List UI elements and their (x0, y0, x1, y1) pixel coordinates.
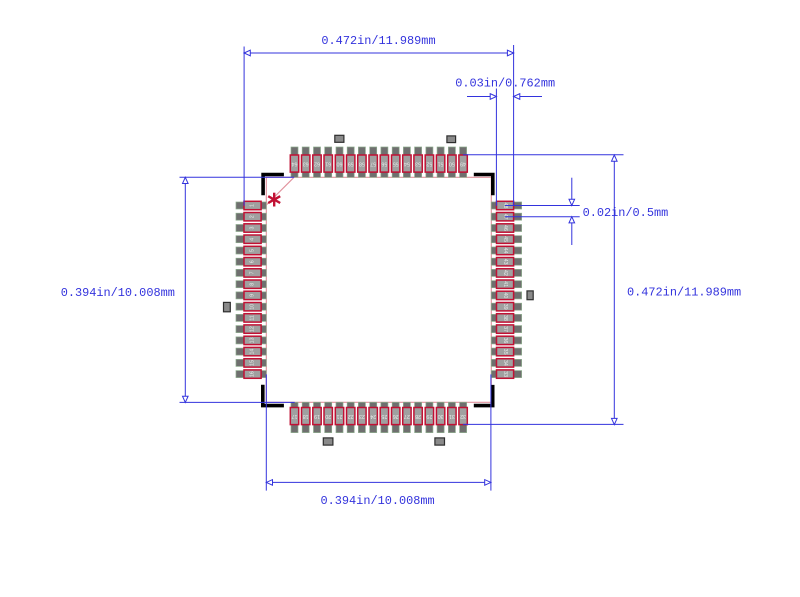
pad 18 (pin 18, bottom side) (302, 402, 310, 432)
pin-1 marker asterisk (268, 193, 280, 207)
svg-text:0.394in/10.008mm: 0.394in/10.008mm (61, 286, 175, 300)
pad 35 (pin 35, right side) (491, 347, 521, 355)
pad 57 (pin 57, top side) (369, 147, 377, 177)
svg-text:52: 52 (426, 161, 432, 167)
pad 22 (pin 22, bottom side) (347, 402, 355, 432)
pad 31 (pin 31, bottom side) (448, 402, 456, 432)
svg-text:36: 36 (502, 337, 508, 343)
pad 43 (pin 43, right side) (491, 258, 521, 266)
pad 33 (pin 33, right side) (491, 370, 521, 378)
pad 53 (pin 53, top side) (414, 147, 422, 177)
pad 16 (pin 16, left side) (236, 370, 266, 378)
pad 49 (pin 49, top side) (459, 147, 467, 177)
svg-text:40: 40 (502, 292, 508, 298)
svg-text:41: 41 (502, 281, 508, 287)
pad 36 (pin 36, right side) (491, 336, 521, 344)
pad 55 (pin 55, top side) (392, 147, 400, 177)
pad 42 (pin 42, right side) (491, 269, 521, 277)
svg-text:42: 42 (502, 270, 508, 276)
pad 1 (pin 1, left side) (236, 201, 266, 209)
svg-text:60: 60 (337, 161, 343, 167)
pad 6 (pin 6, left side) (236, 258, 266, 266)
pad 13 (pin 13, left side) (236, 336, 266, 344)
svg-text:0.472in/11.989mm: 0.472in/11.989mm (627, 286, 741, 300)
dimension 0.02in/0.5mm (pad pitch) (505, 178, 668, 245)
svg-text:46: 46 (502, 225, 508, 231)
pad 56 (pin 56, top side) (380, 147, 388, 177)
pad 48 (pin 48, right side) (491, 201, 521, 209)
pin-1 chamfer line (266, 177, 294, 205)
svg-text:20: 20 (325, 413, 331, 419)
pad 12 (pin 12, left side) (236, 325, 266, 333)
svg-text:25: 25 (381, 413, 387, 419)
pad 5 (pin 5, left side) (236, 246, 266, 254)
svg-text:16: 16 (250, 371, 256, 377)
pad 3 (pin 3, left side) (236, 224, 266, 232)
pad 59 (pin 59, top side) (347, 147, 355, 177)
pad 11 (pin 11, left side) (236, 314, 266, 322)
svg-text:6: 6 (250, 260, 256, 263)
svg-text:27: 27 (404, 413, 410, 419)
svg-text:1: 1 (250, 204, 256, 207)
pad 63 (pin 63, top side) (302, 147, 310, 177)
svg-text:22: 22 (348, 413, 354, 419)
pad 54 (pin 54, top side) (403, 147, 411, 177)
bottom-right corner bracket (474, 385, 493, 406)
pad 47 (pin 47, right side) (491, 213, 521, 221)
pad 29 (pin 29, bottom side) (425, 402, 433, 432)
pad 61 (pin 61, top side) (324, 147, 332, 177)
svg-text:29: 29 (426, 413, 432, 419)
svg-text:17: 17 (292, 413, 298, 419)
pad 58 (pin 58, top side) (358, 147, 366, 177)
svg-text:26: 26 (393, 413, 399, 419)
top-right corner bracket (474, 175, 493, 196)
svg-text:50: 50 (449, 161, 455, 167)
svg-text:49: 49 (460, 161, 466, 167)
svg-text:19: 19 (314, 413, 320, 419)
svg-text:0.03in/0.762mm: 0.03in/0.762mm (455, 77, 555, 91)
pad 52 (pin 52, top side) (425, 147, 433, 177)
svg-text:0.394in/10.008mm: 0.394in/10.008mm (321, 494, 435, 508)
svg-text:61: 61 (325, 161, 331, 167)
svg-text:24: 24 (370, 413, 376, 419)
pad 24 (pin 24, bottom side) (369, 402, 377, 432)
pad 30 (pin 30, bottom side) (436, 402, 444, 432)
svg-text:45: 45 (502, 236, 508, 242)
pad 15 (pin 15, left side) (236, 359, 266, 367)
svg-text:2: 2 (250, 215, 256, 218)
pad 21 (pin 21, bottom side) (335, 402, 343, 432)
svg-text:7: 7 (250, 271, 256, 274)
svg-text:58: 58 (359, 161, 365, 167)
pad 44 (pin 44, right side) (491, 246, 521, 254)
pad 46 (pin 46, right side) (491, 224, 521, 232)
svg-text:54: 54 (404, 161, 410, 167)
IC body outline (silkscreen square) (266, 177, 491, 402)
pad 64 (pin 64, top side) (290, 147, 298, 177)
pad 39 (pin 39, right side) (491, 303, 521, 311)
svg-text:55: 55 (393, 161, 399, 167)
pad 25 (pin 25, bottom side) (380, 402, 388, 432)
svg-text:38: 38 (502, 315, 508, 321)
pad 19 (pin 19, bottom side) (313, 402, 321, 432)
svg-text:30: 30 (438, 413, 444, 419)
pad 26 (pin 26, bottom side) (392, 402, 400, 432)
right fiducial square (527, 291, 533, 300)
left fiducial square (224, 302, 231, 311)
svg-text:0.472in/11.989mm: 0.472in/11.989mm (321, 34, 435, 48)
pad 14 (pin 14, left side) (236, 347, 266, 355)
svg-text:12: 12 (250, 326, 256, 332)
pad 10 (pin 10, left side) (236, 303, 266, 311)
svg-text:18: 18 (303, 413, 309, 419)
pad 60 (pin 60, top side) (335, 147, 343, 177)
pad 34 (pin 34, right side) (491, 359, 521, 367)
svg-text:34: 34 (502, 360, 508, 366)
svg-text:37: 37 (502, 326, 508, 332)
svg-text:14: 14 (250, 349, 256, 355)
bottom fiducial square right (435, 438, 445, 445)
pad 8 (pin 8, left side) (236, 280, 266, 288)
dimension right 0.472in/11.989mm (lead span height) (463, 155, 741, 425)
dimension 0.03in/0.762mm (lead length) (455, 77, 555, 206)
pad 27 (pin 27, bottom side) (403, 402, 411, 432)
pad 32 (pin 32, bottom side) (459, 402, 467, 432)
top-left corner bracket (263, 175, 284, 196)
svg-text:11: 11 (250, 315, 256, 321)
dimension top 0.472in/11.989mm (lead span width) (244, 34, 513, 206)
pad 17 (pin 17, bottom side) (290, 402, 298, 432)
svg-text:4: 4 (250, 238, 256, 241)
svg-text:35: 35 (502, 349, 508, 355)
pad 62 (pin 62, top side) (313, 147, 321, 177)
svg-text:9: 9 (250, 294, 256, 297)
svg-text:62: 62 (314, 161, 320, 167)
pad 50 (pin 50, top side) (448, 147, 456, 177)
pad 23 (pin 23, bottom side) (358, 402, 366, 432)
svg-text:57: 57 (370, 161, 376, 167)
svg-text:33: 33 (502, 371, 508, 377)
svg-text:10: 10 (250, 304, 256, 310)
svg-text:3: 3 (250, 226, 256, 229)
pad 45 (pin 45, right side) (491, 235, 521, 243)
svg-text:44: 44 (502, 248, 508, 254)
svg-text:5: 5 (250, 249, 256, 252)
pad 7 (pin 7, left side) (236, 269, 266, 277)
svg-text:28: 28 (415, 413, 421, 419)
svg-text:8: 8 (250, 283, 256, 286)
svg-text:56: 56 (381, 161, 387, 167)
svg-text:15: 15 (250, 360, 256, 366)
top fiducial square left (335, 135, 344, 142)
pad 4 (pin 4, left side) (236, 235, 266, 243)
dimension left 0.394in/10.008mm (body height) (61, 177, 295, 402)
svg-text:51: 51 (438, 161, 444, 167)
svg-text:53: 53 (415, 161, 421, 167)
svg-text:43: 43 (502, 259, 508, 265)
svg-text:64: 64 (292, 161, 298, 167)
pad 28 (pin 28, bottom side) (414, 402, 422, 432)
svg-text:63: 63 (303, 161, 309, 167)
pad 9 (pin 9, left side) (236, 291, 266, 299)
top fiducial square right (447, 136, 456, 143)
svg-text:0.02in/0.5mm: 0.02in/0.5mm (583, 206, 669, 220)
bottom fiducial square left (323, 438, 333, 445)
pad 41 (pin 41, right side) (491, 280, 521, 288)
bottom-left corner bracket (263, 385, 284, 406)
pad 37 (pin 37, right side) (491, 325, 521, 333)
svg-text:32: 32 (460, 413, 466, 419)
pad 20 (pin 20, bottom side) (324, 402, 332, 432)
svg-text:39: 39 (502, 304, 508, 310)
svg-text:13: 13 (250, 337, 256, 343)
pad 51 (pin 51, top side) (436, 147, 444, 177)
svg-text:21: 21 (337, 413, 343, 419)
pad 2 (pin 2, left side) (236, 213, 266, 221)
pad 38 (pin 38, right side) (491, 314, 521, 322)
pad 40 (pin 40, right side) (491, 291, 521, 299)
dimension bottom 0.394in/10.008mm (body width) (266, 374, 491, 508)
svg-text:23: 23 (359, 413, 365, 419)
svg-text:31: 31 (449, 413, 455, 419)
svg-text:59: 59 (348, 161, 354, 167)
